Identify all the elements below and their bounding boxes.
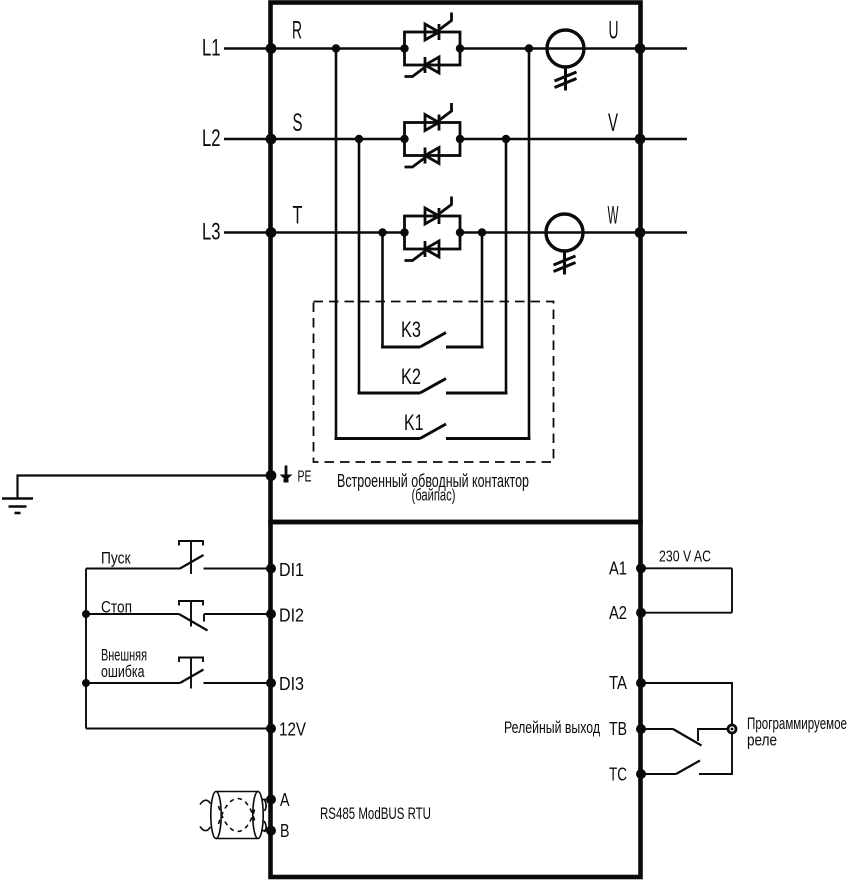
wire 12V common (86, 728, 270, 730)
node thyristor module 2 left terminal (400, 135, 408, 143)
node K3 left tap on L3 (378, 228, 386, 236)
svg-text:K3: K3 (401, 317, 421, 342)
node L1 at box edge R (266, 43, 277, 54)
pushbutton NC Stop (179, 601, 208, 631)
node DI2 terminal (266, 609, 276, 619)
PE arrow symbol (280, 466, 293, 483)
current transformer CT1 on phase U (547, 30, 584, 91)
node A terminal (266, 795, 276, 805)
svg-text:DI1: DI1 (279, 560, 304, 580)
wire U output (640, 47, 687, 49)
svg-text:S: S (293, 109, 303, 137)
wire TA to relay node (641, 683, 732, 725)
svg-text:K1: K1 (404, 410, 424, 435)
svg-text:TB: TB (609, 719, 627, 739)
wire K2 right riser (505, 139, 508, 393)
pushbutton NO external fault (179, 658, 204, 689)
wire K1 right riser (528, 49, 531, 439)
node TB terminal (636, 724, 646, 734)
wire thyristor Q3 to CT2 (460, 231, 640, 233)
node K2 left tap on L2 (355, 135, 363, 143)
relay common node (programmable relay) (728, 725, 736, 733)
node A1 terminal (636, 563, 646, 573)
wire stop button to DI2 (204, 613, 270, 615)
wire thyristor Q1 to CT1 (460, 47, 640, 49)
soft starter lower control box (271, 522, 641, 877)
svg-text:L3: L3 (202, 219, 221, 246)
node DI3 terminal (266, 678, 276, 688)
svg-text:B: B (280, 821, 290, 841)
node rail junction external fault (82, 679, 90, 687)
wire K1 left riser (335, 49, 338, 439)
svg-text:PE: PE (298, 469, 312, 486)
node L2 at box edge S (266, 134, 277, 145)
current transformer CT2 on phase W (546, 214, 583, 275)
wire K2 left riser (358, 139, 361, 393)
node thyristor module 3 right terminal (456, 228, 464, 236)
pushbutton NO Start (Pusk) (179, 541, 204, 574)
contact K1 (bypass, phase R) (335, 424, 531, 439)
node rail junction Stop (82, 610, 90, 618)
node 12V terminal (266, 724, 276, 734)
svg-text:TC: TC (609, 765, 627, 785)
node U at box edge (635, 43, 646, 54)
svg-text:K2: K2 (401, 364, 421, 389)
node W at box edge (635, 227, 646, 238)
wire fault button left lead (86, 682, 180, 684)
dashed enclosure of bypass contactor (314, 302, 554, 463)
wire TC lead (641, 773, 676, 775)
node V at box edge (635, 134, 646, 145)
thyristor pair Q3 (phase T, anti-parallel SCRs) (405, 197, 461, 261)
svg-text:W: W (608, 202, 619, 230)
wire start button left lead (86, 568, 180, 570)
node K3 right tap on phase W (478, 228, 486, 236)
svg-text:DI2: DI2 (279, 606, 304, 626)
wire TB lead (641, 728, 673, 730)
wire stop button left lead (86, 613, 179, 615)
wire cable to terminal A (262, 799, 270, 801)
svg-text:R: R (292, 17, 302, 45)
node TC terminal (636, 769, 646, 779)
wire PE earth conductor (18, 476, 271, 499)
svg-text:TA: TA (609, 673, 627, 693)
node DI1 terminal (266, 564, 276, 574)
svg-text:DI3: DI3 (279, 674, 304, 694)
wire A2 supply (641, 612, 732, 614)
node thyristor module 1 right terminal (456, 44, 464, 52)
twisted pair cable symbol (RS485) (200, 792, 266, 839)
node thyristor module 1 left terminal (400, 44, 408, 52)
wire K3 left riser (381, 233, 384, 348)
svg-text:L1: L1 (202, 35, 221, 62)
wire V output (640, 138, 687, 140)
svg-text:12V: 12V (279, 720, 306, 740)
wire start button to DI1 (204, 568, 271, 570)
wire cable to terminal B (262, 830, 270, 832)
svg-text:230 V AC: 230 V AC (659, 549, 711, 566)
svg-text:A2: A2 (609, 603, 627, 623)
wire left control rail (85, 569, 87, 729)
node B terminal (266, 826, 276, 836)
svg-text:RS485 ModBUS RTU: RS485 ModBUS RTU (320, 804, 431, 823)
wire R to thyristor Q1 (271, 47, 404, 49)
node A2 terminal (636, 608, 646, 618)
wire T to thyristor Q3 (271, 231, 404, 233)
node K1 left tap on L1 (332, 44, 340, 52)
contact K3 (bypass, phase T) (381, 333, 484, 348)
svg-text:(байпас): (байпас) (412, 487, 456, 505)
thyristor pair Q1 (phase R, anti-parallel SCRs) (405, 13, 461, 77)
svg-text:Пуск: Пуск (101, 549, 131, 568)
wire K3 right riser (481, 233, 484, 348)
node L3 at box edge T (266, 227, 277, 238)
wire thyristor Q2 to V (460, 138, 640, 140)
svg-text:U: U (609, 17, 619, 45)
wire L2 input (224, 138, 270, 140)
node thyristor module 2 right terminal (456, 135, 464, 143)
wire L1 input (224, 47, 270, 49)
wire 230V AC link (731, 568, 733, 612)
svg-text:реле: реле (747, 731, 777, 750)
ground (earth electrode symbol) (2, 499, 33, 514)
svg-text:T: T (293, 202, 303, 230)
svg-text:A1: A1 (609, 559, 627, 579)
thyristor pair Q2 (phase S, anti-parallel SCRs) (405, 103, 461, 167)
relay contact NC TB (673, 729, 732, 746)
wire L3 input (224, 231, 270, 233)
wire fault button to DI3 (204, 682, 271, 684)
wire W output (640, 231, 687, 233)
soft starter upper enclosure box (271, 3, 641, 523)
svg-text:ошибка: ошибка (101, 662, 145, 681)
node K1 right tap on phase U (525, 44, 533, 52)
svg-text:V: V (608, 109, 618, 137)
contact K2 (bypass, phase S) (358, 379, 508, 394)
node K2 right tap on phase V (502, 135, 510, 143)
node TA terminal (636, 678, 646, 688)
svg-text:A: A (280, 790, 290, 810)
svg-text:L2: L2 (202, 125, 221, 152)
wire S to thyristor Q2 (271, 138, 404, 140)
relay contact NO TC (676, 734, 732, 775)
node thyristor module 3 left terminal (400, 228, 408, 236)
node PE at box edge (266, 470, 277, 481)
svg-text:Релейный выход: Релейный выход (504, 718, 600, 737)
wire A1 supply (641, 567, 732, 569)
